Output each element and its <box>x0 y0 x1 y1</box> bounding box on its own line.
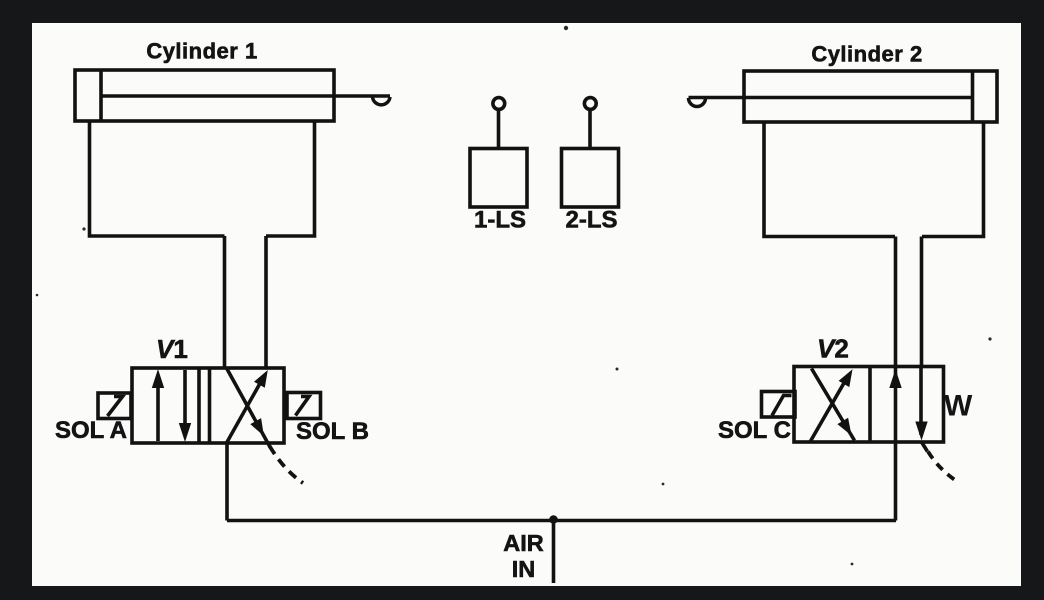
valve V1 down-arrow <box>183 370 187 426</box>
wire: valve V1 output down <box>225 443 229 521</box>
cylinder C1 piston <box>99 70 103 121</box>
solenoid SOL A box <box>98 393 131 419</box>
svg-text:SOL A: SOL A <box>55 417 127 444</box>
cylinder C1 mounting bracket left <box>90 121 225 236</box>
limit switch 2-LS circle <box>584 98 596 110</box>
cylinder C2 rod end hook <box>689 98 706 107</box>
valve V2 up-arrow <box>889 369 901 388</box>
svg-text:W: W <box>944 390 973 423</box>
cylinder C2 rod <box>689 96 973 100</box>
svg-text:1-LS: 1-LS <box>474 207 526 234</box>
solenoid SOL C symbol <box>772 396 792 416</box>
cylinder C2 mounting bracket right <box>922 122 984 237</box>
svg-text:Cylinder 1: Cylinder 1 <box>146 39 257 64</box>
scan frame right <box>1021 0 1044 600</box>
cylinder C2 body <box>744 71 997 122</box>
limit switch 1-LS circle <box>493 98 505 110</box>
valve V2 down-arrow <box>919 367 923 436</box>
limit switch 2-LS box <box>562 149 619 208</box>
wire: air inlet stub <box>552 520 556 584</box>
valve V1 exhaust dashed curve <box>270 446 304 483</box>
valve V1 cross flow arrow (up-right) <box>227 378 264 443</box>
scan frame bottom <box>0 586 1044 600</box>
wire: C1 right port to valve V1 <box>264 236 268 368</box>
svg-text:AIR: AIR <box>503 530 544 556</box>
limit switch 2-LS stem <box>588 111 592 149</box>
cylinder C2 piston <box>971 71 975 122</box>
valve V1 position divider right <box>208 368 212 443</box>
valve V2 cross flow arrow (up-right) <box>810 376 848 442</box>
valve V1 position divider left <box>197 368 201 443</box>
valve V2 exhaust stub <box>922 442 928 452</box>
node: air-in junction <box>549 515 558 524</box>
svg-text:IN: IN <box>512 556 536 582</box>
limit switch 1-LS box <box>470 149 527 208</box>
solenoid SOL A symbol <box>108 397 123 417</box>
valve V1 body <box>132 368 284 443</box>
limit switch 1-LS stem <box>497 111 501 149</box>
solenoid SOL C box <box>762 392 796 418</box>
wire: C1 left port to valve V1 <box>223 236 227 368</box>
svg-text:SOL B: SOL B <box>296 418 369 445</box>
valve V2 divider <box>868 367 872 443</box>
cylinder C1 mounting bracket right <box>266 121 315 236</box>
cylinder C1 body <box>75 70 334 121</box>
solenoid SOL B symbol <box>296 397 310 416</box>
scan frame top <box>0 0 1044 23</box>
wire: C2 left port through valve V2 to manifold <box>894 237 898 521</box>
valve V2 cross flow arrow (down-right) <box>812 369 855 441</box>
cylinder C2 mounting bracket left <box>764 122 895 237</box>
svg-text:V1: V1 <box>156 334 188 364</box>
wire: C2 right port to valve V2 <box>920 237 924 367</box>
cylinder C1 rod end hook <box>373 97 391 105</box>
svg-text:V2: V2 <box>817 334 849 364</box>
svg-text:Cylinder 2: Cylinder 2 <box>811 42 922 67</box>
svg-text:2-LS: 2-LS <box>565 207 617 234</box>
valve V2 body <box>794 367 944 443</box>
valve V1 cross flow arrow (down-right) <box>227 368 271 447</box>
scan frame left <box>0 0 32 600</box>
cylinder C1 rod <box>101 94 390 98</box>
valve V1 up-arrow <box>156 385 160 441</box>
solenoid SOL B box <box>287 393 321 419</box>
svg-text:SOL C: SOL C <box>718 417 791 444</box>
wire: air supply manifold <box>227 519 896 523</box>
valve V2 exhaust dashed curve <box>928 452 955 481</box>
